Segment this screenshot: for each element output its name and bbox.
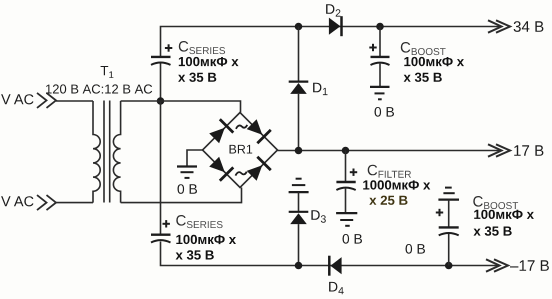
inverted ground above C_BOOST bottom — [438, 188, 459, 200]
diode D1 — [289, 27, 309, 151]
label C_BOOST top — [401, 42, 411, 53]
node junction C_FILTER top — [342, 147, 350, 155]
ground below C_FILTER — [336, 213, 357, 226]
wire secondary bottom to bridge — [121, 188, 242, 203]
bridge diode bottom-right — [245, 157, 271, 183]
label BR1 — [230, 145, 253, 154]
bridge diode top-left — [207, 119, 233, 145]
capacitor C_BOOST (bottom) — [436, 200, 459, 266]
label 17 V — [514, 145, 543, 156]
diode D4 — [329, 256, 341, 276]
bridge AC mark bottom — [236, 172, 247, 176]
capacitor C_BOOST (top) — [369, 27, 389, 87]
wire secondary top to bridge — [121, 101, 241, 113]
label C_BOOST bottom — [473, 196, 483, 207]
value C_BOOST top — [404, 57, 464, 66]
label T1 — [101, 66, 114, 78]
diode D2 — [329, 16, 342, 36]
ground below C_BOOST top — [370, 87, 390, 99]
capacitor C_SERIES (top) — [151, 44, 172, 101]
node junction D1/D2 top — [295, 23, 303, 31]
label C_SERIES top — [179, 41, 189, 52]
input arrow V AC top — [1, 94, 33, 104]
label D4 — [329, 282, 344, 294]
bridge diode bottom-left — [207, 155, 233, 181]
label 0 V (bridge ground) — [178, 184, 198, 194]
wire V AC bottom to primary — [56, 202, 93, 204]
label 0 V (filter ground) — [343, 234, 363, 244]
value C_FILTER — [363, 180, 430, 189]
label D3 — [311, 210, 325, 223]
wire V AC top to primary — [56, 100, 93, 102]
transformer T1 core — [104, 101, 110, 203]
label 34 V — [514, 21, 544, 32]
value C_SERIES bottom — [176, 235, 236, 244]
transformer T1 primary winding — [93, 101, 100, 203]
label 0 V (boost bottom ground) — [406, 244, 426, 254]
wire middle 17V rail — [278, 150, 501, 152]
capacitor C_FILTER — [336, 151, 357, 214]
node junction C_BOOST bottom — [445, 262, 453, 270]
diode D3 — [289, 192, 309, 265]
transformer T1 secondary winding — [113, 101, 120, 203]
value C_SERIES top — [179, 57, 239, 66]
label C_FILTER — [368, 165, 378, 176]
wire bridge left to ground — [187, 150, 203, 167]
output arrow 17 V — [488, 144, 510, 156]
value C_BOOST bottom — [474, 210, 534, 219]
capacitor C_SERIES (bottom) — [151, 220, 171, 242]
wire C_SERIES link vertical — [160, 101, 162, 235]
node junction D3/D4 bottom — [295, 262, 303, 270]
label -17 V — [510, 260, 549, 271]
wire top boost rail — [161, 27, 501, 57]
node junction secondary/C_SERIES — [157, 97, 165, 105]
node junction D1 bottom — [295, 147, 303, 155]
input arrow V AC bottom — [1, 196, 33, 206]
ground at bridge — [177, 167, 197, 178]
output arrow 34 V — [488, 20, 510, 32]
label D2 — [326, 4, 340, 16]
bridge diode top-right — [245, 117, 271, 143]
label 0 V (boost top ground) — [375, 107, 395, 117]
node junction C_BOOST top — [376, 23, 384, 31]
inverted ground above D3 — [289, 179, 309, 192]
wire bottom -17V rail — [161, 242, 501, 266]
bridge BR1 diamond — [203, 113, 278, 188]
label turns ratio — [46, 84, 152, 93]
label D1 — [313, 83, 327, 95]
bridge AC mark top — [236, 125, 247, 129]
output arrow -17 V — [486, 259, 508, 271]
label C_SERIES bottom — [176, 215, 186, 226]
